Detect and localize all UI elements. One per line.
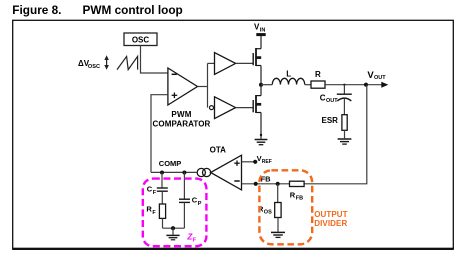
svg-text:PWM: PWM <box>171 110 191 119</box>
wire comparator output to driver bus <box>198 86 208 88</box>
ground below low-side MOSFET <box>255 140 268 145</box>
wire junction to ground <box>172 228 174 235</box>
capacitor Cp <box>179 198 190 200</box>
wire COMP to Cf <box>161 173 163 188</box>
svg-text:COMPARATOR: COMPARATOR <box>153 120 211 129</box>
resistor RFB <box>290 181 305 186</box>
svg-text:Figure 8.: Figure 8. <box>12 3 61 17</box>
wire top buffer to high-side gate <box>236 62 253 64</box>
ground below Zf network <box>166 235 179 239</box>
node Vref terminal <box>253 160 257 164</box>
wire Vref to OTA plus input <box>242 161 256 163</box>
wire Zf bottom rail <box>163 227 185 229</box>
svg-text:OUT: OUT <box>374 75 386 81</box>
svg-text:C: C <box>320 94 326 103</box>
wire Cout to ESR <box>343 99 345 115</box>
transistor Q1 high-side MOSFET <box>253 48 261 66</box>
Zf compensation network dashed magenta box <box>143 179 207 247</box>
svg-text:ESR: ESR <box>322 116 339 125</box>
output divider dashed orange box <box>259 170 312 244</box>
op-amp OTA error amplifier <box>211 155 242 190</box>
svg-text:COMP: COMP <box>159 159 182 168</box>
resistor ESR <box>342 115 347 131</box>
plus sign OTA <box>234 162 239 164</box>
inductor L <box>272 78 304 84</box>
transistor Q2 low-side MOSFET <box>253 95 261 113</box>
svg-text:OSC: OSC <box>88 64 100 70</box>
sawtooth waveform <box>117 56 138 69</box>
svg-text:OUT: OUT <box>326 98 338 104</box>
node VOUT junction <box>364 83 368 87</box>
resistor Rf <box>159 204 165 218</box>
svg-text:P: P <box>198 201 202 207</box>
svg-text:OUTPUT: OUTPUT <box>314 210 348 219</box>
wire switch node vertical <box>260 66 262 96</box>
svg-text:R: R <box>315 70 321 79</box>
arrow up-down <box>104 55 109 70</box>
node low-side source dot <box>260 134 262 136</box>
svg-text:REF: REF <box>262 159 272 165</box>
svg-text:IN: IN <box>260 28 266 34</box>
wire ESR to ground <box>344 130 346 138</box>
node FB terminal <box>254 182 258 186</box>
ground below ESR <box>338 139 352 144</box>
buffer top driver <box>215 53 236 75</box>
power rail VIN bar <box>256 33 265 36</box>
svg-text:L: L <box>286 70 291 79</box>
node Cp branch junction <box>182 171 186 175</box>
wire R to VOUT <box>325 84 382 86</box>
node Cout junction <box>343 84 345 86</box>
svg-text:OS: OS <box>264 210 272 216</box>
plus sign <box>172 94 178 96</box>
svg-text:FB: FB <box>261 174 272 183</box>
OTA output double circle <box>197 168 205 176</box>
wire Rf to bottom rail <box>162 218 164 228</box>
wire VIN to high-side drain <box>260 36 262 49</box>
wire FB line OTA minus input to RFB <box>242 183 290 185</box>
wire bottom buffer to low-side gate <box>236 107 253 109</box>
svg-text:PWM control loop: PWM control loop <box>83 3 183 17</box>
wire FB node down to Ros <box>277 184 279 203</box>
wire inductor to resistor R <box>305 84 311 86</box>
wire bus to top buffer <box>208 62 215 64</box>
resistor R <box>311 81 325 88</box>
node Zf ground junction <box>171 226 175 230</box>
node switch junction <box>259 83 263 87</box>
capacitor Cf <box>157 187 168 189</box>
op-amp PWM comparator <box>168 68 198 105</box>
minus sign <box>172 73 177 75</box>
wire Cf to Rf <box>161 191 163 204</box>
oscillator box OSC <box>124 33 157 46</box>
wire VOUT feedback vertical <box>304 85 367 184</box>
wire OSC to comparator minus input <box>141 46 168 74</box>
wire driver bus vertical <box>207 63 209 107</box>
capacitor Cout <box>337 93 352 95</box>
svg-text:OSC: OSC <box>132 36 150 45</box>
svg-text:FB: FB <box>296 196 303 202</box>
wire switch node to inductor <box>261 84 272 86</box>
wire VOUT branch down to Cout <box>343 85 345 94</box>
arrow VOUT <box>381 82 388 88</box>
wire Cp branch <box>183 173 185 199</box>
resistor Ros <box>275 203 281 218</box>
wire Cp to bottom rail <box>183 202 185 228</box>
wire low-side source to ground <box>260 113 262 139</box>
svg-text:DIVIDER: DIVIDER <box>314 219 347 228</box>
wire COMP rail <box>151 171 197 173</box>
node FB divider junction <box>276 182 280 186</box>
inverter bottom driver with input bubble <box>210 106 214 110</box>
svg-text:OTA: OTA <box>210 146 227 155</box>
minus sign OTA <box>234 180 239 182</box>
ground below Ros <box>271 232 285 237</box>
wire comparator plus input down to COMP <box>151 95 168 173</box>
wire Ros to ground <box>277 218 279 232</box>
node Cf branch junction <box>160 171 164 175</box>
